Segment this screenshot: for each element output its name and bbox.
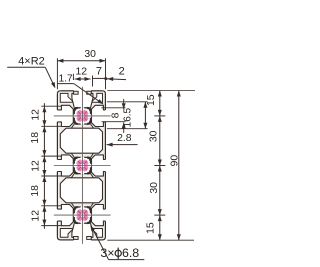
svg-text:12: 12 bbox=[31, 109, 42, 121]
svg-text:1.7: 1.7 bbox=[59, 73, 73, 84]
svg-text:2: 2 bbox=[119, 65, 125, 77]
svg-text:15: 15 bbox=[146, 94, 157, 106]
svg-text:15: 15 bbox=[146, 222, 157, 234]
svg-text:7: 7 bbox=[96, 66, 102, 78]
svg-text:12: 12 bbox=[31, 210, 42, 222]
svg-text:18: 18 bbox=[30, 185, 41, 197]
svg-text:12: 12 bbox=[31, 160, 42, 172]
svg-text:18: 18 bbox=[30, 132, 41, 144]
svg-text:8: 8 bbox=[110, 112, 121, 118]
svg-text:2.8: 2.8 bbox=[117, 133, 132, 144]
svg-text:6.8: 6.8 bbox=[122, 246, 139, 260]
svg-text:90: 90 bbox=[170, 155, 181, 167]
svg-text:12: 12 bbox=[76, 67, 88, 78]
svg-text:30: 30 bbox=[84, 49, 96, 60]
svg-text:16.5: 16.5 bbox=[122, 107, 133, 127]
svg-text:30: 30 bbox=[149, 130, 160, 142]
svg-text:30: 30 bbox=[149, 182, 160, 194]
svg-text:4×R2: 4×R2 bbox=[18, 55, 45, 67]
